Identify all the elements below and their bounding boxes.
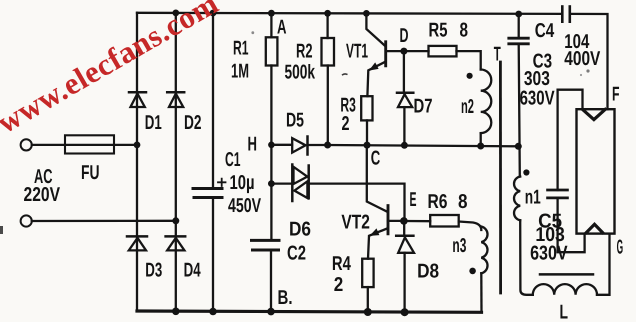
svg-text:R6: R6 [428, 191, 448, 213]
svg-text:D7: D7 [414, 96, 433, 118]
svg-text:R4: R4 [332, 253, 352, 275]
svg-text:630V: 630V [520, 87, 555, 109]
svg-text:2: 2 [334, 274, 344, 296]
svg-text:1M: 1M [231, 61, 249, 83]
svg-text:400V: 400V [564, 48, 601, 70]
svg-text:C: C [371, 148, 381, 170]
svg-text:VT1: VT1 [346, 40, 368, 62]
svg-text:D3: D3 [145, 259, 162, 281]
svg-text:D2: D2 [184, 112, 202, 134]
svg-text:220V: 220V [24, 184, 61, 206]
svg-text:F: F [612, 84, 620, 106]
svg-text:C4: C4 [535, 20, 555, 42]
svg-text:10µ: 10µ [230, 172, 255, 194]
svg-text:n2: n2 [461, 96, 474, 118]
svg-text:R5: R5 [429, 19, 448, 41]
svg-text:VT2: VT2 [341, 211, 370, 233]
svg-text:500k: 500k [285, 62, 316, 84]
svg-text:G: G [617, 237, 624, 259]
svg-text:630V: 630V [530, 243, 568, 265]
svg-text:D5: D5 [286, 109, 304, 131]
svg-text:D6: D6 [289, 218, 311, 240]
svg-text:FU: FU [81, 162, 100, 184]
svg-text:2: 2 [342, 113, 350, 135]
svg-text:D: D [400, 25, 409, 47]
svg-text:450V: 450V [228, 195, 261, 217]
svg-text:D1: D1 [145, 112, 162, 134]
svg-text:8: 8 [458, 191, 468, 213]
svg-text:D4: D4 [184, 259, 202, 281]
svg-text:A: A [277, 17, 287, 39]
svg-text:C1: C1 [225, 149, 241, 171]
svg-text:D8: D8 [417, 261, 439, 283]
svg-text:R1: R1 [233, 38, 249, 60]
svg-text:8: 8 [460, 19, 469, 41]
svg-text:n1: n1 [525, 187, 541, 209]
svg-text:T: T [494, 44, 501, 66]
svg-text:B.: B. [278, 287, 293, 309]
svg-text:E: E [410, 189, 417, 211]
svg-text:H: H [248, 133, 258, 155]
svg-text:R2: R2 [296, 41, 313, 63]
svg-text:n3: n3 [452, 235, 466, 257]
svg-text:L: L [560, 301, 569, 322]
svg-text:C2: C2 [287, 243, 306, 265]
